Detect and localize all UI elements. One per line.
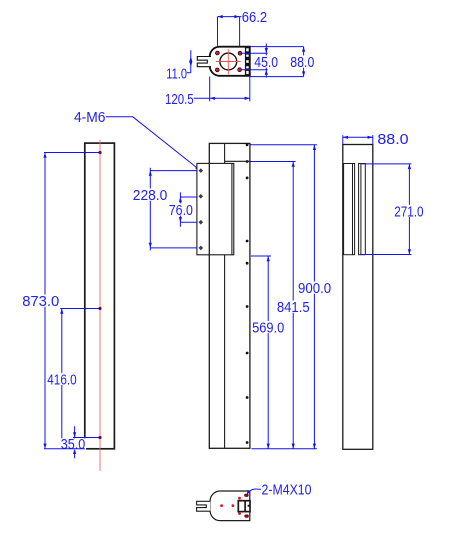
svg-text:271.0: 271.0 (394, 203, 423, 220)
svg-text:2-M4X10: 2-M4X10 (262, 482, 312, 499)
svg-text:228.0: 228.0 (133, 187, 168, 204)
svg-text:88.0: 88.0 (377, 131, 408, 148)
svg-text:66.2: 66.2 (242, 9, 267, 26)
svg-text:873.0: 873.0 (22, 293, 59, 310)
svg-text:88.0: 88.0 (290, 54, 314, 71)
svg-text:120.5: 120.5 (165, 91, 194, 108)
svg-text:900.0: 900.0 (298, 280, 331, 297)
svg-text:76.0: 76.0 (169, 202, 193, 219)
svg-text:35.0: 35.0 (61, 436, 86, 453)
svg-text:4-M6: 4-M6 (74, 109, 106, 126)
svg-text:11.0: 11.0 (166, 65, 187, 82)
svg-text:416.0: 416.0 (47, 371, 76, 388)
svg-text:841.5: 841.5 (277, 299, 310, 316)
svg-text:45.0: 45.0 (254, 54, 278, 71)
svg-text:569.0: 569.0 (252, 320, 284, 337)
